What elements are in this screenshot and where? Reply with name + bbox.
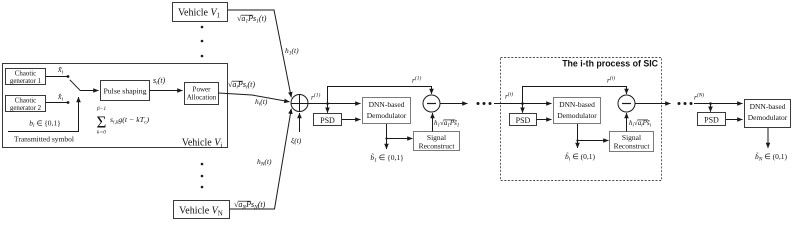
svg-text:Transmitted symbol: Transmitted symbol xyxy=(14,135,74,144)
box DNN demodulator 1 xyxy=(363,98,411,124)
svg-text:DNN-based: DNN-based xyxy=(750,102,786,111)
wire power allocation to sum node xyxy=(219,93,290,102)
svg-text:Reconstruct: Reconstruct xyxy=(419,142,456,151)
wire minus node i out xyxy=(635,103,671,105)
wire junction to PSD 1 xyxy=(327,104,329,113)
svg-text:PSD: PSD xyxy=(320,116,335,125)
svg-text:PSD: PSD xyxy=(704,116,719,125)
box Vehicle VN xyxy=(174,201,230,219)
junction below DNN 1 xyxy=(385,137,387,139)
wire DNN N output bit xyxy=(767,128,769,148)
wire Signal Reconstruct i to minus node xyxy=(626,113,628,132)
wire V1 to sum node xyxy=(228,10,292,97)
svg-text:ξ(t): ξ(t) xyxy=(291,136,302,145)
box Chaotic generator 2 xyxy=(6,96,46,113)
svg-text:Vehicle VN: Vehicle VN xyxy=(179,206,223,218)
svg-text:β−1: β−1 xyxy=(96,106,106,112)
svg-text:DNN-based: DNN-based xyxy=(559,100,595,109)
svg-text:hN(t): hN(t) xyxy=(257,157,272,168)
SIC dashed box xyxy=(501,58,662,181)
wire PSD 1 to DNN 1 xyxy=(342,119,361,121)
svg-text:√aNPsN(t): √aNPsN(t) xyxy=(234,200,266,211)
bypass wire r(1) to minus node 1 xyxy=(328,87,432,104)
svg-text:Power: Power xyxy=(193,86,212,94)
svg-text:hi(t): hi(t) xyxy=(255,97,268,108)
wire VN to sum node xyxy=(230,109,292,209)
svg-text:Pulse shaping: Pulse shaping xyxy=(103,87,146,96)
box PSD 1 xyxy=(314,114,342,126)
svg-text:generator 2: generator 2 xyxy=(10,105,42,112)
box Chaotic generator 1 xyxy=(6,69,46,86)
wire into chain N xyxy=(694,103,743,105)
svg-text:PSD: PSD xyxy=(516,116,531,125)
junction r1 xyxy=(326,102,329,105)
svg-text:b̃i ∈ (0,1): b̃i ∈ (0,1) xyxy=(565,152,595,163)
wire DNN 1 down branch xyxy=(387,124,413,139)
wire Signal Reconstruct 1 to minus node xyxy=(432,113,434,132)
bypass wire r(i) to minus node i xyxy=(523,87,627,104)
svg-text:√a1Ps1(t): √a1Ps1(t) xyxy=(237,14,267,25)
svg-text:h1(t): h1(t) xyxy=(285,46,299,57)
svg-text:DNN-based: DNN-based xyxy=(369,100,405,109)
svg-text:si(t): si(t) xyxy=(153,76,166,87)
wire PSD i to DNN i xyxy=(537,119,552,121)
junction ri xyxy=(521,102,524,105)
svg-text:Demodulator: Demodulator xyxy=(748,113,788,122)
svg-text:√aiPsi(t): √aiPsi(t) xyxy=(228,80,255,91)
formula sum si,k g(t-kTc) xyxy=(96,106,150,136)
dots bottom column xyxy=(201,163,204,189)
wire DNN i output bit xyxy=(577,141,579,149)
svg-text:Vehicle V1: Vehicle V1 xyxy=(178,8,221,20)
minus node i xyxy=(618,95,635,112)
wire PSD N to DNN N xyxy=(726,119,743,121)
wire switch to pulse shaping xyxy=(81,90,99,92)
wire gen2 to switch contact xyxy=(46,101,70,104)
junction rN xyxy=(709,102,712,105)
wire DNN i down branch xyxy=(578,124,609,141)
box DNN demodulator i xyxy=(554,98,601,124)
noise input xi(t) xyxy=(291,113,302,145)
dots top column xyxy=(201,26,204,58)
svg-text:Chaotic: Chaotic xyxy=(15,98,36,105)
wire minus node 1 out xyxy=(440,103,468,105)
wire into SIC chain xyxy=(494,103,552,105)
switch lever xyxy=(70,80,81,91)
wire DNN 1 output bit xyxy=(386,139,388,150)
wire sum node to DNN 1 xyxy=(308,103,361,105)
box PSD i xyxy=(510,114,537,126)
box Vehicle V1 xyxy=(173,3,228,22)
box PSD N xyxy=(698,113,726,126)
box DNN demodulator N xyxy=(745,100,791,128)
box Pulse shaping xyxy=(101,81,150,101)
svg-text:Demodulator: Demodulator xyxy=(367,111,407,120)
svg-text:The i-th process of SIC: The i-th process of SIC xyxy=(562,59,658,69)
svg-text:Vehicle Vi: Vehicle Vi xyxy=(182,138,223,150)
minus node 1 xyxy=(423,95,440,112)
box Power Allocation xyxy=(185,83,219,105)
wire junction to PSD i xyxy=(522,104,524,113)
svg-text:bi ∈ {0,1}: bi ∈ {0,1} xyxy=(29,119,61,130)
ellipsis after chain 1 xyxy=(477,102,492,105)
ellipsis after SIC chain xyxy=(678,102,693,105)
wire pulse shaping to power allocation xyxy=(150,90,183,92)
wire junction to PSD N xyxy=(710,104,712,112)
svg-text:Allocation: Allocation xyxy=(187,94,217,102)
box Signal Reconstruct 1 xyxy=(414,132,460,151)
svg-text:Chaotic: Chaotic xyxy=(15,71,36,78)
junction below DNN i xyxy=(576,139,578,141)
svg-text:k=0: k=0 xyxy=(97,130,106,136)
wire gen1 to switch contact xyxy=(46,75,70,78)
svg-text:generator 1: generator 1 xyxy=(10,78,42,85)
svg-text:Demodulator: Demodulator xyxy=(557,111,597,120)
svg-text:Reconstruct: Reconstruct xyxy=(614,142,651,151)
transmitter outer box Vehicle Vi xyxy=(3,64,228,148)
summation node xyxy=(291,95,308,112)
wire bi control to switch xyxy=(8,97,79,132)
box Signal Reconstruct i xyxy=(610,132,654,152)
